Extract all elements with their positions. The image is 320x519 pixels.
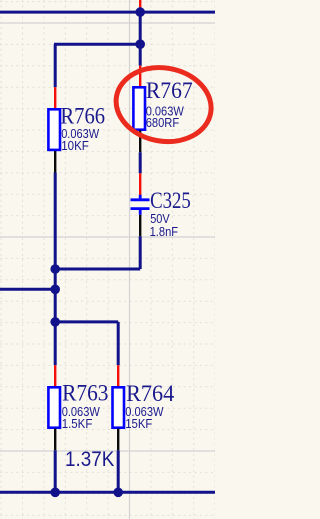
wire top bus — [0, 11, 215, 14]
svg-text:C325: C325 — [150, 188, 191, 213]
capacitor C325 — [131, 173, 150, 236]
wire bottom bus — [0, 491, 215, 494]
junction branch to R764 — [50, 317, 60, 327]
resistor R766 — [48, 87, 60, 172]
wire left rail — [54, 173, 57, 366]
svg-text:10KF: 10KF — [61, 138, 89, 153]
junction bottom left — [50, 488, 60, 498]
wire stub to left edge — [0, 288, 55, 291]
svg-text:1.37K: 1.37K — [65, 447, 115, 471]
junction C bottom — [50, 264, 60, 274]
resistor R767 — [133, 66, 145, 153]
junction at top bus — [135, 7, 145, 17]
wire horizontal to R764 — [55, 320, 118, 323]
wire between R767 and C325 — [139, 152, 142, 173]
resistor R764 — [113, 365, 125, 450]
junction at branch — [135, 39, 145, 49]
wire horizontal branch — [54, 43, 140, 46]
junction bottom right — [113, 488, 123, 498]
wire vertical to R764 — [117, 322, 120, 365]
junction left stub — [50, 285, 60, 295]
wire below C325 — [139, 236, 142, 269]
pin stub from off-sheet component — [139, 0, 141, 9]
svg-text:R767: R767 — [146, 78, 193, 103]
annotation red circle around R767 — [110, 60, 217, 149]
svg-text:680RF: 680RF — [146, 115, 180, 130]
wire below R763 — [54, 450, 57, 492]
svg-text:1.8nF: 1.8nF — [150, 224, 179, 239]
svg-text:1.5KF: 1.5KF — [62, 416, 93, 431]
svg-text:R763: R763 — [62, 381, 108, 407]
wire below R764 — [117, 450, 120, 492]
resistor R763 — [48, 365, 60, 450]
svg-text:15KF: 15KF — [125, 416, 152, 431]
wire vertical x140 top — [139, 12, 142, 66]
wire horizontal C325 to left rail — [55, 268, 140, 271]
wire vertical down to R766 — [54, 44, 57, 87]
svg-text:R766: R766 — [60, 104, 105, 129]
